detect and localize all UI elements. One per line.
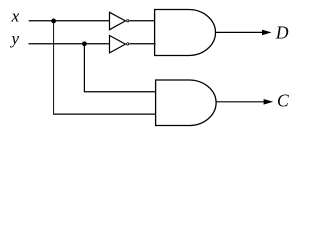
- wire: x branch horizontal to bottom AND input: [53, 113, 156, 115]
- AND gate U3 (top, output D): [155, 10, 216, 56]
- junction dot on x wire: [51, 19, 56, 24]
- inverter U2 bubble: [127, 43, 129, 45]
- arrowhead D: [262, 30, 272, 36]
- junction dot on y wire: [82, 41, 87, 46]
- AND gate U4 (bottom, output C): [156, 80, 216, 126]
- inverter U1 triangle (x input): [110, 12, 126, 29]
- inverter U2 triangle (y input): [110, 36, 126, 53]
- svg-text:D: D: [275, 23, 289, 43]
- wire: input y horizontal: [29, 43, 110, 45]
- svg-text:C: C: [277, 91, 289, 111]
- svg-text:y: y: [10, 29, 20, 48]
- wire: y branch horizontal to bottom AND input: [84, 91, 156, 93]
- wire: U1 output to AND gate: [129, 20, 154, 22]
- inverter U1 bubble: [127, 20, 129, 22]
- wire: C output: [216, 101, 265, 103]
- wire: input x horizontal: [29, 20, 110, 22]
- wire: U2 output to AND gate: [129, 43, 155, 45]
- svg-text:x: x: [11, 7, 20, 26]
- wire: x branch vertical down: [53, 21, 55, 114]
- arrowhead C: [264, 99, 274, 105]
- wire: y branch vertical down: [83, 44, 85, 92]
- wire: D output: [216, 31, 264, 33]
